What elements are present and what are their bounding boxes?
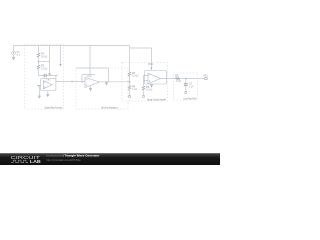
wire V1 bottom stem (13, 55, 15, 57)
wire feedback top U2 (76, 68, 109, 82)
voltage source V1 (12, 51, 21, 57)
ground below V1 (12, 58, 15, 61)
wire C1 to box corner (55, 76, 57, 82)
svg-text:5 V: 5 V (17, 54, 21, 57)
svg-text:Low Pass Filter: Low Pass Filter (184, 97, 197, 100)
output terminal VF1 (203, 75, 208, 80)
wire inverting input U3 (144, 76, 149, 87)
svg-text:Square Wave Generator: Square Wave Generator (45, 106, 63, 109)
terminal node (142, 95, 144, 97)
wire feedback vertical (49, 46, 51, 76)
terminal node (128, 95, 130, 97)
wire rail down to R3 (129, 48, 131, 72)
node junction (38, 61, 40, 63)
resistor R6 (horizontal) (175, 75, 181, 83)
resistor R1 (37, 53, 47, 59)
junction tick (71, 80, 73, 82)
white background (0, 0, 220, 165)
ground on output node (105, 82, 108, 86)
wire V1 top stem (13, 46, 15, 51)
svg-text:OA1: OA1 (46, 79, 51, 82)
wire VCC top rail (14, 45, 130, 47)
VCC arrow stub (60, 46, 62, 65)
wire stub down (38, 86, 40, 96)
ground below U2 (89, 86, 92, 91)
op-amp U1 box (40, 79, 56, 91)
resistor R4 (128, 85, 137, 91)
svg-text:OA2: OA2 (87, 75, 92, 78)
resistor R3 (128, 72, 138, 78)
dashed annotation box A (square wave generator) (25, 45, 64, 110)
svg-text:Op-Amp Integrator: Op-Amp Integrator (101, 106, 118, 109)
svg-text:10 kΩ: 10 kΩ (146, 89, 153, 92)
svg-text:LAB: LAB (30, 159, 41, 164)
ground below U3 (150, 84, 153, 88)
ground below U1 (46, 91, 49, 98)
op-amp U2 triangle (85, 77, 100, 87)
op-amp U3 triangle (148, 73, 161, 83)
capacitor C2 (184, 83, 194, 89)
svg-text:Voltage Controlled Amplifier: Voltage Controlled Amplifier (147, 98, 166, 101)
terminal node (185, 91, 187, 93)
op-amp U1 triangle (43, 81, 52, 89)
wire rail corner to VCC pin (130, 46, 152, 66)
svg-text:VCC: VCC (148, 63, 153, 66)
dashed annotation box B (integrator) (76, 68, 128, 109)
wire R1 branch from rail (38, 46, 40, 54)
wire U3 output (161, 78, 205, 80)
svg-text:prodipsaroli | Triangle Wave G: prodipsaroli | Triangle Wave Generator (46, 154, 100, 158)
wire rail drop to U2 (89, 46, 91, 75)
wire U2 output (100, 81, 130, 83)
svg-text:10 kΩ: 10 kΩ (41, 55, 48, 58)
wire C2 to terminal (185, 86, 187, 92)
svg-text:1 μF: 1 μF (189, 85, 194, 88)
capacitor C1 (44, 73, 52, 78)
node junction (129, 81, 131, 83)
dashed annotation box D (low pass filter) (174, 73, 198, 100)
svg-text:1 kΩ: 1 kΩ (176, 80, 181, 83)
svg-text:http://circuitlab.com/c87h56a: http://circuitlab.com/c87h56a (46, 158, 81, 162)
CircuitLab logo (11, 155, 41, 164)
dashed annotation box C (122, 63, 168, 102)
svg-text:10 kΩ: 10 kΩ (41, 67, 48, 70)
svg-text:1 kΩ: 1 kΩ (132, 88, 137, 91)
ground at stub (38, 96, 41, 99)
op-amp U3 box (145, 71, 167, 85)
svg-text:10 kΩ: 10 kΩ (132, 75, 139, 78)
wire U1 output to U2 (56, 81, 85, 83)
resistor R5 (142, 86, 152, 92)
wire R1 to node (38, 57, 40, 61)
input stub (37, 85, 40, 87)
wire C1 row (39, 75, 58, 77)
junction (185, 78, 187, 80)
wire feedback loop rect U2 (82, 75, 95, 83)
wire node to feedback vertical (39, 61, 50, 63)
resistor R2 (37, 62, 47, 76)
wire down to C2 (185, 79, 187, 84)
